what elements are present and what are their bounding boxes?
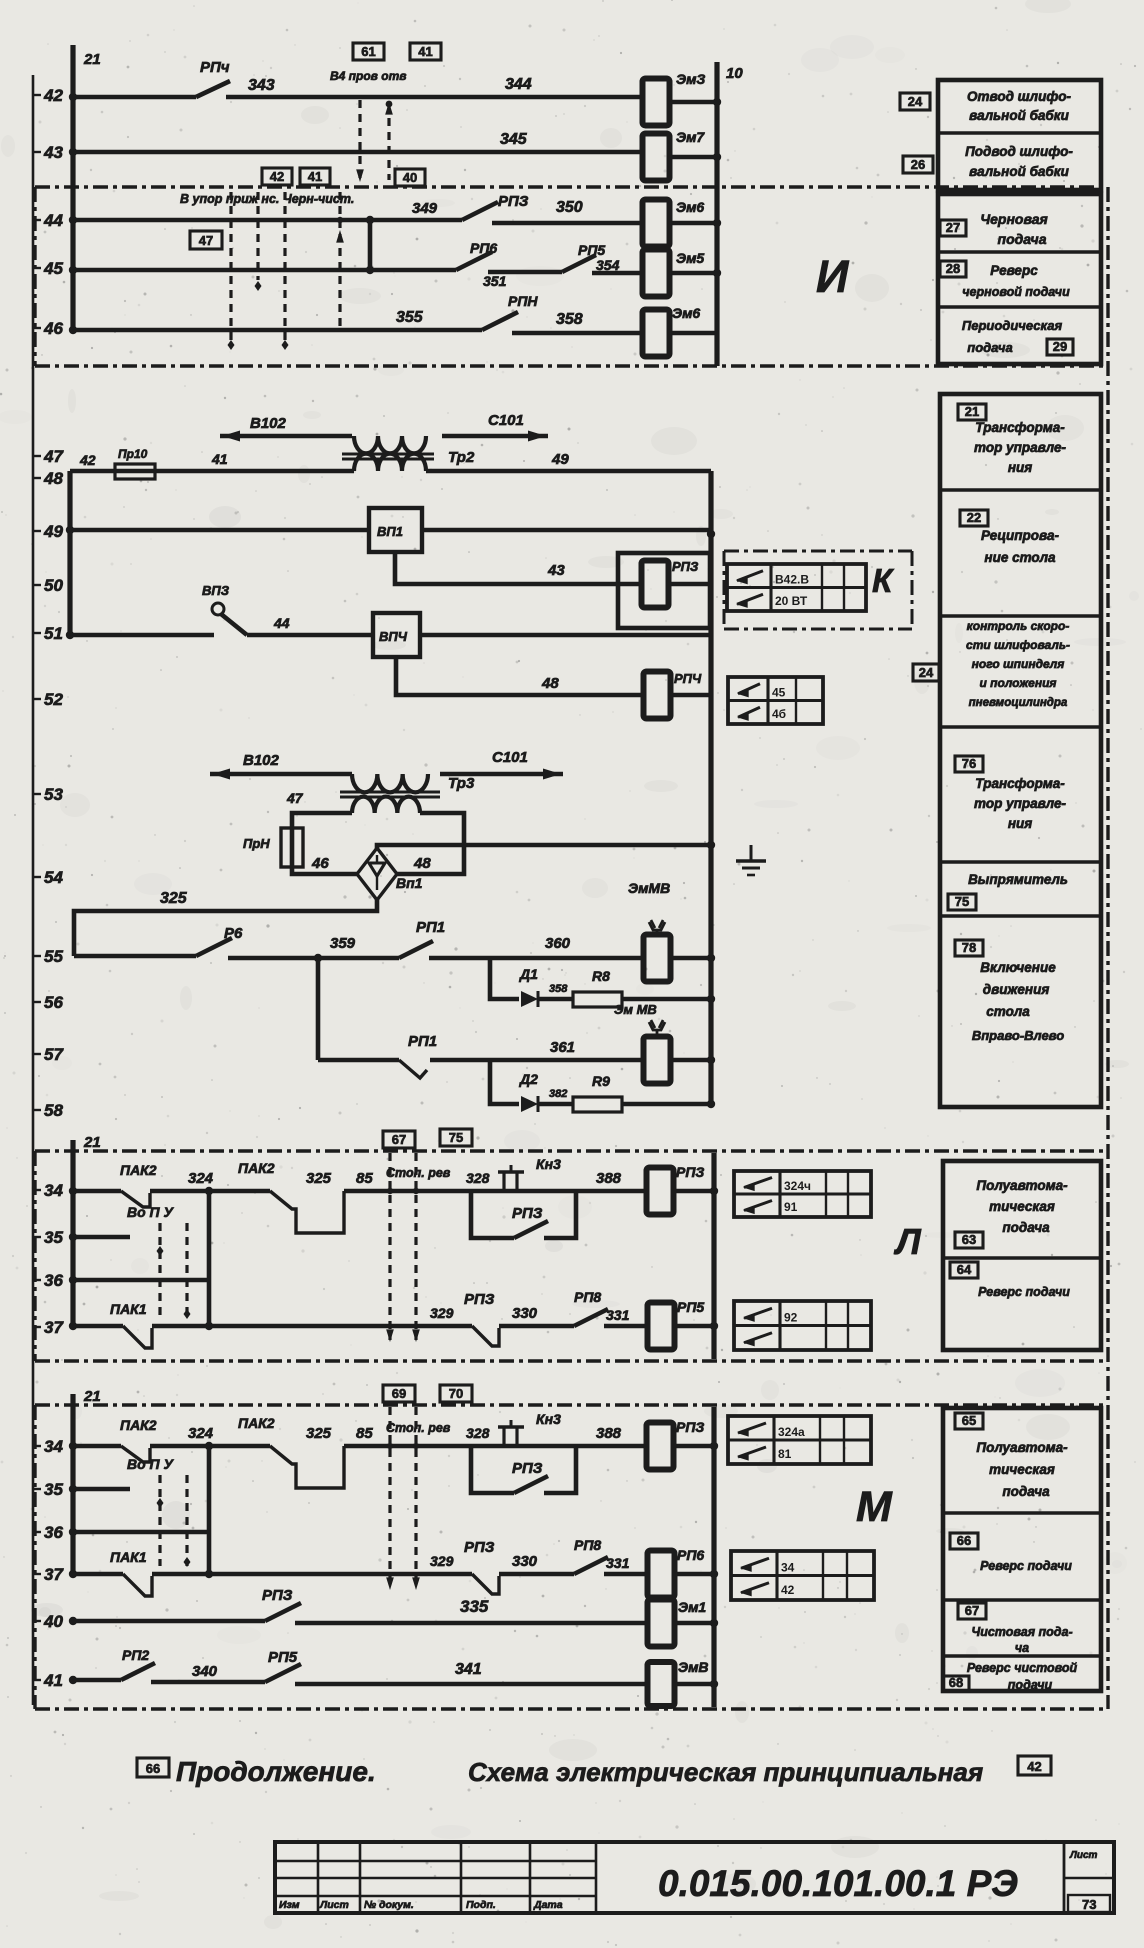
svg-text:подачи: подачи bbox=[1008, 1678, 1053, 1692]
svg-text:Во П У: Во П У bbox=[127, 1204, 175, 1220]
ref box 66 bbox=[950, 1533, 978, 1549]
node: line 35 bbox=[33, 1480, 63, 1499]
svg-text:68: 68 bbox=[949, 1675, 963, 1690]
svg-text:ЭмВ: ЭмВ bbox=[678, 1659, 709, 1675]
wire R8-bus bbox=[622, 997, 711, 1002]
svg-text:Дата: Дата bbox=[533, 1899, 563, 1911]
svg-text:РП5: РП5 bbox=[268, 1649, 298, 1666]
bus: right bus section К bbox=[708, 471, 713, 1106]
svg-text:34: 34 bbox=[44, 1437, 63, 1456]
contact ПАК2-1 М bbox=[120, 1417, 157, 1462]
svg-text:ПАК2: ПАК2 bbox=[120, 1417, 157, 1433]
wire РПЗ-bus bbox=[669, 582, 711, 587]
svg-text:Эм5: Эм5 bbox=[676, 250, 704, 266]
node: line 36 bbox=[33, 1523, 63, 1542]
ref box 42 caption bbox=[1018, 1756, 1051, 1775]
node: line 53 bbox=[33, 785, 63, 804]
wire 48 branch bbox=[396, 657, 644, 695]
svg-text:В упор приж нс. Черн-чист.: В упор приж нс. Черн-чист. bbox=[180, 192, 354, 206]
svg-text:Включение: Включение bbox=[980, 960, 1056, 975]
svg-text:Лист: Лист bbox=[319, 1899, 349, 1911]
svg-text:РП1: РП1 bbox=[408, 1033, 437, 1050]
svg-text:Черновая: Черновая bbox=[980, 211, 1048, 227]
wire 55b bbox=[228, 956, 399, 961]
arrow С101 (Тр2) bbox=[442, 412, 548, 442]
bus: right return bus 10 (section И) bbox=[714, 62, 719, 366]
ref box 63 bbox=[955, 1232, 983, 1248]
svg-text:ПАК2: ПАК2 bbox=[120, 1162, 157, 1178]
svg-text:Подвод шлифо-: Подвод шлифо- bbox=[965, 144, 1073, 159]
svg-text:Полуавтома-: Полуавтома- bbox=[976, 1178, 1068, 1193]
svg-text:66: 66 bbox=[146, 1761, 160, 1776]
svg-text:РП5: РП5 bbox=[677, 1299, 704, 1315]
node: line 51 bbox=[33, 624, 63, 643]
svg-text:черновой подачи: черновой подачи bbox=[962, 285, 1070, 299]
mech command arrow a bbox=[229, 192, 232, 340]
svg-text:№ докум.: № докум. bbox=[364, 1899, 414, 1911]
node: line 48 bbox=[33, 469, 63, 488]
contact РПч bbox=[196, 59, 230, 97]
node: line 37 bbox=[33, 1318, 64, 1337]
svg-text:58: 58 bbox=[44, 1101, 63, 1120]
svg-text:324: 324 bbox=[188, 1170, 214, 1187]
svg-text:ВПЗ: ВПЗ bbox=[202, 583, 230, 598]
svg-text:Выпрямитель: Выпрямитель bbox=[968, 872, 1068, 887]
wire 43b bbox=[669, 155, 717, 160]
ref box 67 top bbox=[383, 1131, 415, 1148]
wire 51a bbox=[70, 633, 214, 638]
svg-text:РП5: РП5 bbox=[578, 242, 605, 258]
svg-text:21: 21 bbox=[965, 404, 979, 419]
contact РП1 line55 bbox=[399, 919, 445, 958]
svg-text:Эм6: Эм6 bbox=[672, 305, 700, 321]
terminal block Л1 bbox=[734, 1171, 871, 1217]
ref box 41 bbox=[410, 43, 441, 60]
svg-text:В42.В: В42.В bbox=[775, 573, 809, 587]
branch Д2 bbox=[490, 1060, 519, 1104]
node: line 45 bbox=[33, 259, 63, 278]
svg-text:47: 47 bbox=[286, 790, 304, 806]
svg-text:331: 331 bbox=[606, 1555, 630, 1571]
frame: group Л bottom dash-dot bbox=[35, 1359, 1108, 1362]
svg-text:27: 27 bbox=[946, 220, 960, 235]
wire 34e М bbox=[673, 1444, 714, 1449]
wire 40a bbox=[73, 1619, 265, 1624]
frame: group М left dash-dot bbox=[33, 1405, 36, 1709]
brake symbol ЭмМВ bbox=[628, 880, 670, 935]
svg-text:РП6: РП6 bbox=[677, 1547, 704, 1563]
wire 325 link bbox=[74, 898, 377, 956]
svg-text:Реципрова-: Реципрова- bbox=[981, 528, 1060, 543]
svg-text:РП6: РП6 bbox=[470, 240, 497, 256]
svg-text:Вп1: Вп1 bbox=[396, 875, 423, 891]
wire 34e Л bbox=[673, 1189, 714, 1194]
svg-text:330: 330 bbox=[512, 1305, 538, 1322]
svg-text:44: 44 bbox=[43, 211, 63, 230]
svg-text:РПЗ: РПЗ bbox=[676, 1164, 704, 1180]
svg-text:42: 42 bbox=[270, 169, 284, 184]
svg-text:подача: подача bbox=[1002, 1484, 1050, 1499]
node: line 47 bbox=[33, 447, 64, 466]
svg-text:21: 21 bbox=[83, 51, 101, 68]
node: line 43 bbox=[33, 143, 63, 162]
svg-text:36: 36 bbox=[44, 1523, 63, 1542]
svg-text:50: 50 bbox=[44, 576, 63, 595]
arrow С101 (Тр3) bbox=[440, 749, 563, 780]
svg-text:Д2: Д2 bbox=[519, 1071, 538, 1087]
bus: right bus Л bbox=[711, 1153, 716, 1359]
svg-text:РП2: РП2 bbox=[122, 1647, 149, 1663]
svg-text:350: 350 bbox=[556, 199, 583, 216]
contact РПЗ line44 bbox=[462, 193, 529, 220]
svg-text:43: 43 bbox=[547, 562, 565, 579]
wire Тр3 loop left bbox=[292, 813, 358, 874]
ref box 26 bbox=[903, 156, 933, 173]
wire: line-number rail bbox=[32, 75, 35, 1705]
wire 46b bbox=[512, 331, 644, 336]
mech stop arrow 1 Л bbox=[388, 1153, 391, 1340]
wire 34a Л bbox=[73, 1189, 121, 1194]
svg-text:тическая: тическая bbox=[989, 1462, 1055, 1477]
resistor R9 bbox=[573, 1073, 622, 1112]
svg-text:Л: Л bbox=[893, 1221, 922, 1262]
wire 43 bbox=[73, 150, 644, 155]
wire Д2-R9 bbox=[538, 1102, 573, 1107]
svg-text:331: 331 bbox=[606, 1307, 630, 1323]
wire 34d Л bbox=[471, 1189, 649, 1194]
bus: left bus section К bbox=[67, 471, 72, 635]
svg-text:21: 21 bbox=[83, 1388, 101, 1405]
vertical link 44-45 bbox=[368, 220, 373, 270]
svg-text:360: 360 bbox=[545, 935, 571, 952]
svg-text:359: 359 bbox=[330, 935, 356, 952]
svg-text:Трансформа-: Трансформа- bbox=[975, 420, 1065, 435]
svg-text:64: 64 bbox=[957, 1262, 972, 1277]
svg-text:85: 85 bbox=[356, 1170, 373, 1187]
svg-text:69: 69 bbox=[392, 1386, 406, 1401]
svg-text:329: 329 bbox=[430, 1553, 454, 1569]
wire 34b М bbox=[150, 1444, 270, 1449]
svg-text:подача: подача bbox=[998, 231, 1047, 247]
svg-text:344: 344 bbox=[505, 76, 532, 93]
svg-text:С101: С101 bbox=[488, 412, 524, 429]
mech ВоПУ arrows Л bbox=[127, 1204, 191, 1319]
svg-text:325: 325 bbox=[306, 1170, 332, 1187]
mech ВоПУ arrows М bbox=[127, 1456, 191, 1567]
svg-text:37: 37 bbox=[44, 1318, 64, 1337]
coil РП5 Л bbox=[648, 1299, 705, 1350]
coil Эм5 bbox=[643, 250, 705, 297]
annotation box Л bbox=[943, 1161, 1101, 1350]
wire 43 branch bbox=[395, 552, 641, 584]
svg-text:Эм7: Эм7 bbox=[676, 129, 705, 145]
mech link В4 отв up-arrow bbox=[387, 104, 390, 180]
node: line 55 bbox=[33, 947, 63, 966]
bus: right bus М bbox=[711, 1407, 716, 1707]
svg-text:Чистовая пода-: Чистовая пода- bbox=[971, 1625, 1072, 1639]
svg-text:Изм: Изм bbox=[279, 1899, 300, 1911]
svg-text:Отвод шлифо-: Отвод шлифо- bbox=[967, 89, 1072, 104]
wire 51b bbox=[247, 633, 373, 638]
node: line 52 bbox=[33, 690, 63, 709]
svg-text:328: 328 bbox=[466, 1170, 490, 1186]
contact ПАК1 М bbox=[69, 1549, 152, 1596]
svg-text:35: 35 bbox=[44, 1480, 63, 1499]
frame: group И left dash-dot bbox=[33, 187, 36, 366]
svg-text:РПЗ: РПЗ bbox=[512, 1460, 543, 1477]
ref box 27 bbox=[940, 220, 966, 236]
wire 51c bbox=[420, 633, 711, 638]
svg-text:РПЗ: РПЗ bbox=[672, 559, 699, 574]
node: line 37 bbox=[33, 1565, 64, 1584]
svg-text:Эм1: Эм1 bbox=[678, 1599, 706, 1615]
svg-text:R8: R8 bbox=[592, 968, 610, 984]
contact РПЗ 37 М bbox=[464, 1539, 499, 1594]
contact РП8 М bbox=[574, 1537, 608, 1574]
coil РП6 М bbox=[648, 1547, 705, 1598]
svg-text:РПЗ: РПЗ bbox=[498, 193, 529, 210]
relay РПЗ box bbox=[618, 553, 710, 628]
coil Эм6 line46 bbox=[643, 305, 701, 357]
coil Эм7 bbox=[643, 129, 706, 181]
svg-text:РПЗ: РПЗ bbox=[464, 1291, 495, 1308]
svg-text:Периодическая: Периодическая bbox=[962, 318, 1063, 333]
node: line 56 bbox=[33, 993, 63, 1012]
wire 34d М bbox=[471, 1444, 649, 1449]
svg-text:10: 10 bbox=[726, 65, 743, 82]
svg-text:вальной бабки: вальной бабки bbox=[969, 108, 1070, 123]
ref box 66 caption bbox=[137, 1758, 169, 1777]
svg-text:46: 46 bbox=[43, 319, 63, 338]
vertical 55-57 bbox=[316, 958, 321, 1060]
svg-text:РПЗ: РПЗ bbox=[262, 1587, 293, 1604]
ref box 70 top bbox=[440, 1385, 472, 1402]
wire 45d bbox=[669, 271, 717, 276]
svg-text:тическая: тическая bbox=[989, 1199, 1055, 1214]
bus: left bus section М bbox=[70, 1394, 75, 1574]
svg-text:70: 70 bbox=[449, 1386, 463, 1401]
svg-text:91: 91 bbox=[784, 1200, 798, 1214]
contact Р6 bbox=[196, 925, 243, 956]
wire 40b bbox=[295, 1621, 649, 1626]
ref box 21 bbox=[958, 404, 986, 420]
terminal block РПЧ row bbox=[728, 677, 823, 724]
svg-text:65: 65 bbox=[962, 1413, 976, 1428]
rectifier ВПЧ bbox=[373, 613, 420, 657]
svg-text:Реверс чистовой: Реверс чистовой bbox=[967, 1661, 1078, 1675]
svg-text:В102: В102 bbox=[250, 415, 287, 432]
svg-text:361: 361 bbox=[550, 1039, 575, 1056]
svg-text:330: 330 bbox=[512, 1553, 538, 1570]
svg-text:40: 40 bbox=[403, 170, 417, 185]
svg-text:47: 47 bbox=[43, 447, 64, 466]
svg-text:46: 46 bbox=[311, 855, 329, 872]
svg-text:335: 335 bbox=[460, 1597, 489, 1616]
frame: group М top dash-dot bbox=[35, 1403, 1108, 1406]
frame: К dash-dot box bbox=[724, 551, 912, 629]
contact РП1 line57 bbox=[399, 1033, 437, 1078]
contact РП8 Л bbox=[574, 1289, 608, 1326]
svg-text:21: 21 bbox=[83, 1134, 101, 1151]
svg-text:351: 351 bbox=[483, 273, 507, 289]
svg-text:37: 37 bbox=[44, 1565, 64, 1584]
svg-text:ча: ча bbox=[1015, 1641, 1029, 1655]
svg-text:42: 42 bbox=[79, 452, 96, 468]
button Кн3 Л bbox=[498, 1156, 561, 1191]
wire РП6-bus М bbox=[674, 1572, 714, 1577]
svg-text:Эм6: Эм6 bbox=[676, 199, 704, 215]
svg-text:К: К bbox=[872, 562, 895, 599]
svg-text:ние стола: ние стола bbox=[984, 550, 1056, 565]
frame: right dash-dot border bbox=[1106, 187, 1109, 1709]
svg-text:В102: В102 bbox=[243, 752, 280, 769]
svg-text:ния: ния bbox=[1008, 460, 1032, 475]
mech stop arrow 2 М bbox=[414, 1407, 417, 1588]
wire 36 Л bbox=[73, 1278, 209, 1283]
fuse Пр10 bbox=[115, 447, 155, 479]
wire Тр3 loop right bbox=[396, 813, 464, 874]
svg-text:С101: С101 bbox=[492, 749, 528, 766]
svg-text:42: 42 bbox=[1027, 1759, 1041, 1774]
transformer Тр3 bbox=[340, 774, 475, 813]
diode Д2 bbox=[519, 1071, 538, 1112]
svg-text:пневмоцилиндра: пневмоцилиндра bbox=[969, 697, 1068, 709]
svg-text:РПЧ: РПЧ bbox=[674, 671, 702, 686]
svg-text:43: 43 bbox=[43, 143, 63, 162]
svg-text:324: 324 bbox=[188, 1425, 214, 1442]
rectifier bridge Вп1 bbox=[357, 848, 423, 900]
contact РПЗ 37 Л bbox=[464, 1291, 499, 1346]
svg-text:сти шлифоваль-: сти шлифоваль- bbox=[966, 638, 1070, 652]
sheet label bbox=[1068, 1850, 1110, 1912]
svg-text:48: 48 bbox=[43, 469, 63, 488]
wire 45b bbox=[488, 270, 562, 275]
ref box 47 bbox=[190, 231, 222, 249]
coil Эм6 line44 bbox=[643, 199, 705, 247]
title block bbox=[275, 1842, 1114, 1913]
ref box 76 bbox=[955, 756, 983, 772]
wire 34b Л bbox=[150, 1189, 270, 1194]
svg-text:324а: 324а bbox=[778, 1425, 805, 1439]
ref box 28 bbox=[940, 261, 966, 277]
svg-text:Р6: Р6 bbox=[224, 925, 243, 942]
contact ПАК2-1 Л bbox=[120, 1162, 157, 1207]
terminal block М2 bbox=[731, 1551, 874, 1600]
ref box 67 М bbox=[958, 1603, 986, 1619]
svg-text:29: 29 bbox=[1053, 339, 1067, 354]
svg-text:Кн3: Кн3 bbox=[536, 1411, 561, 1427]
svg-text:R9: R9 bbox=[592, 1073, 610, 1089]
mech command arrow d bbox=[338, 192, 341, 328]
svg-text:41: 41 bbox=[308, 169, 322, 184]
wire 44c bbox=[669, 221, 717, 226]
wire 42a bbox=[73, 95, 196, 100]
ref box 61 bbox=[353, 43, 384, 60]
svg-text:28: 28 bbox=[946, 261, 960, 276]
svg-text:ВП1: ВП1 bbox=[377, 524, 403, 539]
frame: group Л top dash-dot bbox=[35, 1149, 1108, 1152]
svg-text:ного шпинделя: ного шпинделя bbox=[972, 657, 1065, 671]
node: line 54 bbox=[33, 868, 63, 887]
svg-text:тор управле-: тор управле- bbox=[974, 796, 1066, 811]
wire 34c М bbox=[344, 1444, 471, 1449]
wire 46c bbox=[669, 331, 717, 336]
frame: group М bottom dash-dot bbox=[35, 1707, 1108, 1710]
svg-text:328: 328 bbox=[466, 1425, 490, 1441]
svg-text:57: 57 bbox=[44, 1045, 64, 1064]
svg-text:54: 54 bbox=[44, 868, 63, 887]
svg-text:Вправо-Влево: Вправо-Влево bbox=[972, 1028, 1064, 1043]
svg-text:341: 341 bbox=[455, 1661, 482, 1678]
wire 37a М bbox=[152, 1572, 472, 1577]
svg-text:подача: подача bbox=[1002, 1220, 1050, 1235]
wire 57c bbox=[670, 1058, 711, 1063]
contact РП5 line41 bbox=[265, 1649, 301, 1682]
svg-text:48: 48 bbox=[413, 855, 431, 872]
svg-text:26: 26 bbox=[911, 157, 925, 172]
svg-text:67: 67 bbox=[965, 1603, 979, 1618]
wire 55a bbox=[74, 954, 196, 959]
svg-text:Полуавтома-: Полуавтома- bbox=[976, 1440, 1068, 1455]
node: line 35 bbox=[33, 1228, 63, 1247]
wire 34c Л bbox=[344, 1189, 471, 1194]
annotation box: черновая подача группы bbox=[938, 194, 1101, 364]
node: line 34 bbox=[33, 1181, 63, 1200]
svg-text:Стоп. рев: Стоп. рев bbox=[386, 1166, 451, 1180]
svg-text:325: 325 bbox=[160, 890, 188, 907]
wire РП5-bus Л bbox=[674, 1324, 714, 1329]
svg-text:41: 41 bbox=[211, 451, 228, 467]
svg-text:Д1: Д1 bbox=[519, 966, 538, 982]
wire 36 М bbox=[73, 1530, 209, 1535]
svg-text:76: 76 bbox=[962, 756, 976, 771]
svg-text:тор управле-: тор управле- bbox=[974, 440, 1066, 455]
svg-text:47: 47 bbox=[199, 233, 213, 248]
coil РПЗ М bbox=[647, 1419, 705, 1470]
ref box 22 bbox=[960, 510, 988, 526]
mech command arrow b bbox=[256, 192, 259, 280]
coil РПЗ Л bbox=[647, 1164, 705, 1215]
svg-text:325: 325 bbox=[306, 1425, 332, 1442]
svg-text:0.015.00.101.00.1 РЭ: 0.015.00.101.00.1 РЭ bbox=[658, 1863, 1018, 1904]
wire 37a Л bbox=[152, 1324, 472, 1329]
svg-text:20 ВТ: 20 ВТ bbox=[775, 594, 808, 608]
annotation box М bbox=[943, 1408, 1101, 1692]
svg-text:Тр2: Тр2 bbox=[448, 449, 475, 466]
coil ЭмМВ2 bbox=[644, 1037, 671, 1084]
wire 42b bbox=[226, 95, 644, 100]
wire 49a bbox=[70, 528, 369, 533]
ref box 24 bbox=[900, 93, 930, 110]
svg-text:340: 340 bbox=[192, 1663, 218, 1680]
transformer Тр2 bbox=[342, 436, 475, 471]
svg-text:382: 382 bbox=[549, 1088, 567, 1100]
svg-text:34: 34 bbox=[781, 1561, 795, 1575]
svg-text:345: 345 bbox=[500, 131, 528, 148]
node: line 41 bbox=[33, 1671, 63, 1690]
node: line 36 bbox=[33, 1271, 63, 1290]
wire 34a М bbox=[73, 1444, 121, 1449]
svg-text:ПрН: ПрН bbox=[243, 836, 270, 851]
wire 41b bbox=[151, 1680, 265, 1685]
svg-text:ПАК2: ПАК2 bbox=[238, 1160, 275, 1176]
contact ПАК1 Л bbox=[69, 1301, 152, 1348]
wire 44b bbox=[492, 221, 644, 226]
svg-text:РП8: РП8 bbox=[574, 1289, 601, 1305]
svg-text:55: 55 bbox=[44, 947, 63, 966]
node: line 46 bbox=[33, 319, 63, 338]
svg-text:Реверс: Реверс bbox=[990, 263, 1038, 278]
